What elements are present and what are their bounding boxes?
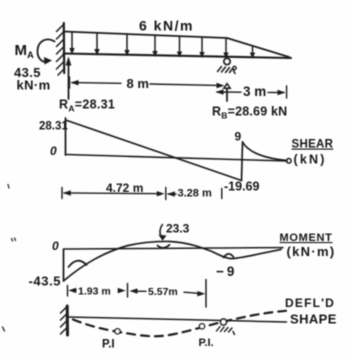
svg-text:4.72 m: 4.72 m <box>106 181 143 195</box>
svg-text:6 kN/m: 6 kN/m <box>139 18 194 34</box>
svg-text:1.93 m: 1.93 m <box>78 286 111 298</box>
svg-text:RB=28.69 kN: RB=28.69 kN <box>212 105 287 121</box>
svg-text:DEFL'D: DEFL'D <box>285 296 335 310</box>
svg-text:P.I: P.I <box>102 339 115 351</box>
svg-text:5.57m: 5.57m <box>148 286 178 298</box>
svg-text:28.31: 28.31 <box>39 121 68 133</box>
svg-text:kN·m: kN·m <box>17 78 51 93</box>
svg-text:3.28 m: 3.28 m <box>178 188 212 200</box>
svg-text:SHEAR: SHEAR <box>292 139 334 151</box>
svg-text:-43.5: -43.5 <box>29 274 62 289</box>
svg-text:MOMENT: MOMENT <box>280 232 333 244</box>
svg-text:(kN·m): (kN·m) <box>287 244 336 259</box>
svg-text:SHAPE: SHAPE <box>290 312 337 327</box>
svg-text:RA=28.31: RA=28.31 <box>59 98 115 114</box>
svg-text:-19.69: -19.69 <box>224 180 259 194</box>
svg-text:8 m: 8 m <box>127 76 149 91</box>
svg-text:0: 0 <box>50 144 57 158</box>
svg-text:3 m: 3 m <box>243 84 266 99</box>
svg-text:MA: MA <box>15 42 35 61</box>
svg-text:−9: −9 <box>216 264 237 279</box>
svg-text:P.I.: P.I. <box>199 337 214 349</box>
svg-text:9: 9 <box>235 130 242 144</box>
svg-text:0: 0 <box>52 239 59 253</box>
svg-text:(kN): (kN) <box>294 153 327 167</box>
svg-text:23.3: 23.3 <box>166 222 190 236</box>
